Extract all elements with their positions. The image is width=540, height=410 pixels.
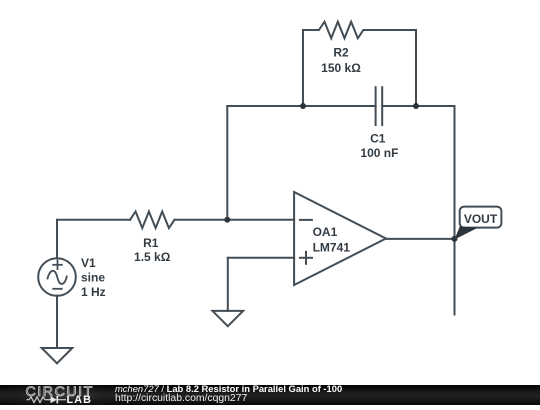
flag VOUT pointer (455, 227, 479, 240)
svg-text:VOUT: VOUT (464, 212, 498, 226)
svg-text:C1: C1 (370, 132, 386, 146)
wire V1 to R1 (57, 219, 130, 221)
svg-text:1 Hz: 1 Hz (81, 285, 106, 299)
resistor R1 (130, 212, 175, 229)
op-amp plus pin symbol (300, 252, 312, 264)
svg-text:mchen727 / Lab 8.2 Resistor in: mchen727 / Lab 8.2 Resistor in Parallel … (115, 383, 342, 394)
svg-text:LAB: LAB (67, 394, 93, 405)
svg-text:http://circuitlab.com/cqgn277: http://circuitlab.com/cqgn277 (115, 393, 247, 404)
wire V1 bottom vertical (56, 296, 58, 348)
svg-text:100 nF: 100 nF (360, 146, 398, 160)
op-amp minus pin symbol (300, 219, 312, 221)
V1 plus sign (53, 261, 62, 270)
wire V1 top vertical (56, 220, 58, 258)
wire feedback horizontal right (382, 105, 454, 107)
svg-text:1.5 kΩ: 1.5 kΩ (134, 250, 171, 264)
logo resistor zigzag (27, 397, 48, 403)
svg-text:LM741: LM741 (313, 241, 351, 255)
wire feedback left vertical (226, 106, 228, 220)
logo diode (48, 396, 67, 403)
V1 minus sign (53, 288, 62, 290)
wire op-amp plus input horizontal (228, 257, 294, 259)
op-amp U1 triangle (294, 192, 386, 285)
svg-text:V1: V1 (81, 256, 96, 270)
svg-text:sine: sine (81, 271, 105, 285)
wire feedback horizontal left (227, 105, 375, 107)
footer logo glow (5, 385, 120, 405)
wire plus input ground vertical (227, 258, 229, 311)
wire output vertical (454, 106, 456, 315)
capacitor C1 (376, 87, 383, 125)
ground symbol under V1 (42, 348, 73, 363)
ground symbol at plus input (213, 311, 244, 326)
wire R2 right vertical (415, 30, 417, 106)
wire R1 to op-amp minus input (175, 219, 295, 221)
svg-text:150 kΩ: 150 kΩ (321, 61, 361, 75)
resistor R2 (303, 22, 416, 39)
svg-text:OA1: OA1 (313, 225, 338, 239)
svg-text:R1: R1 (143, 236, 159, 250)
voltage source V1 circle (38, 258, 76, 296)
flag VOUT box (460, 207, 502, 228)
V1 sine wave (48, 271, 67, 284)
junction node R2 left (300, 103, 306, 109)
junction node R2 right / C1 (413, 103, 419, 109)
junction node minus input (224, 217, 230, 223)
junction node output (452, 236, 458, 242)
svg-text:R2: R2 (333, 46, 349, 60)
wire R2 left vertical (302, 30, 304, 106)
wire op-amp output (386, 238, 455, 240)
